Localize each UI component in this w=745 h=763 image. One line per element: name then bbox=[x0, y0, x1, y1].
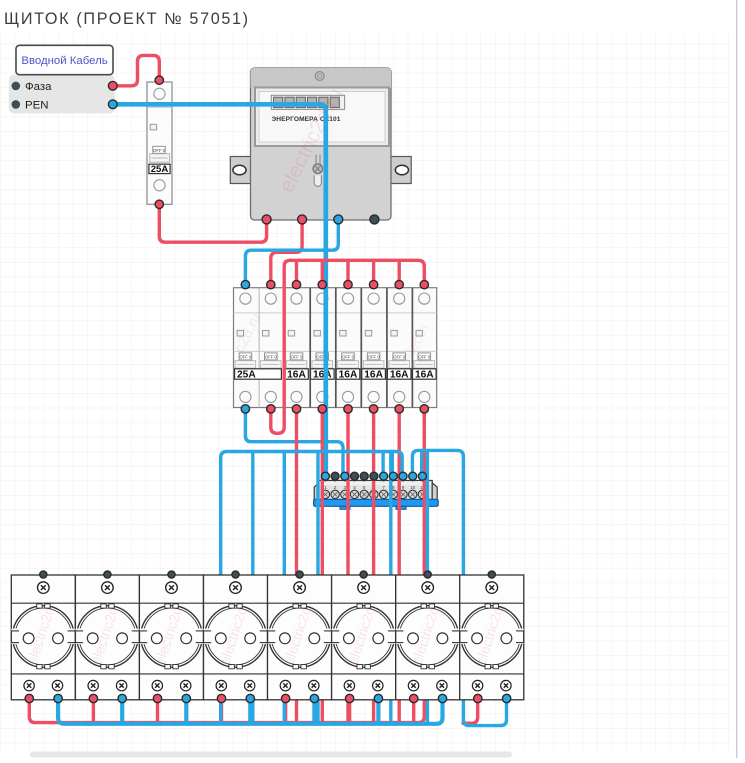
terminal breaker 5 bottom bbox=[344, 405, 352, 413]
socket 8 mount pin bbox=[488, 571, 495, 578]
svg-text:OFF 0: OFF 0 bbox=[239, 354, 252, 359]
svg-text:OFF 0: OFF 0 bbox=[393, 354, 406, 359]
socket 7 mount pin bbox=[424, 571, 431, 578]
socket XS1 bbox=[11, 575, 75, 700]
legend panel bbox=[9, 75, 115, 114]
svg-text:16A: 16A bbox=[339, 370, 358, 381]
wire meter L-out to breaker 2 bbox=[271, 219, 302, 284]
terminal breaker 1 top bbox=[241, 280, 249, 288]
wire PEN feed to bus bbox=[113, 104, 326, 476]
meter U1 ЭНЕРГОМЕРА СЕ101 bbox=[230, 68, 411, 220]
wire QF1 to meter L-in bbox=[159, 204, 266, 242]
terminal QF1 bottom bbox=[155, 200, 163, 208]
svg-text:16A: 16A bbox=[313, 370, 332, 381]
svg-text:5: 5 bbox=[363, 485, 366, 490]
svg-text:25A: 25A bbox=[151, 164, 169, 175]
socket 6 mount pin bbox=[360, 571, 367, 578]
wire breaker 8 output riser bbox=[418, 409, 424, 723]
breaker module 5 details bbox=[336, 293, 360, 403]
terminal socket 2 N bbox=[118, 694, 126, 702]
title bbox=[4, 10, 250, 28]
terminal socket 1 N bbox=[54, 694, 62, 702]
wire breaker 1 N to bus pin 3 bbox=[245, 409, 343, 476]
wire phase comb to breakers 3-8 bbox=[271, 260, 425, 433]
terminal breaker 2 top bbox=[267, 280, 275, 288]
wire neutral distribution under sockets bbox=[58, 699, 442, 724]
svg-text:OFF 0: OFF 0 bbox=[291, 354, 304, 359]
terminal socket 5 L bbox=[281, 694, 289, 702]
bus pin 2 bbox=[331, 472, 339, 480]
terminal breaker 7 top bbox=[395, 280, 403, 288]
socket XS6 bbox=[332, 575, 396, 700]
wire bus pin 10 to socket 8 N bbox=[412, 450, 506, 725]
legend label Фаза bbox=[12, 81, 53, 93]
terminal breaker 8 bottom bbox=[420, 405, 428, 413]
breaker module 4 details bbox=[311, 293, 335, 403]
terminal socket 6 L bbox=[345, 694, 353, 702]
terminal socket 3 N bbox=[182, 694, 190, 702]
wire breaker 6 output riser bbox=[372, 409, 375, 723]
terminal breaker 3 bottom bbox=[292, 405, 300, 413]
socket 3 mount pin bbox=[168, 571, 175, 578]
wire breaker 5 output riser bbox=[346, 409, 349, 723]
svg-text:16A: 16A bbox=[364, 370, 383, 381]
svg-text:25A: 25A bbox=[237, 370, 256, 381]
breaker module 7 details bbox=[387, 293, 411, 403]
svg-text:2: 2 bbox=[334, 485, 337, 490]
socket XS8 bbox=[460, 575, 524, 700]
terminal socket 2 L bbox=[89, 694, 97, 702]
bus pin 8 bbox=[389, 472, 397, 480]
terminal QF1 top bbox=[155, 76, 163, 84]
terminal breaker 4 bottom bbox=[318, 405, 326, 413]
svg-text:9: 9 bbox=[402, 485, 405, 490]
terminal breaker 6 top bbox=[369, 280, 377, 288]
wire phase input bbox=[113, 55, 160, 85]
bus pin 3 bbox=[341, 472, 349, 480]
terminal breaker 7 bottom bbox=[395, 405, 403, 413]
socket XS5 bbox=[268, 575, 332, 700]
breaker module 3 details bbox=[285, 293, 309, 403]
bus pin 7 bbox=[380, 472, 388, 480]
wire breaker 4 output riser bbox=[321, 409, 324, 723]
page right border bbox=[736, 0, 738, 758]
breaker module 1 details bbox=[235, 293, 256, 403]
bus pin 9 bbox=[399, 472, 407, 480]
bottom scrollbar bbox=[30, 752, 512, 758]
terminal breaker 8 top bbox=[420, 280, 428, 288]
terminal breaker 2 bottom bbox=[267, 405, 275, 413]
legend label PEN bbox=[12, 100, 49, 112]
svg-text:OFF 0: OFF 0 bbox=[418, 354, 431, 359]
breaker module 6 details bbox=[362, 293, 386, 403]
svg-text:7: 7 bbox=[382, 485, 385, 490]
breaker module 8 details bbox=[413, 293, 437, 403]
wire meter N-out to breaker 1 bbox=[245, 219, 338, 284]
svg-text:16A: 16A bbox=[415, 370, 434, 381]
terminal meter 2 bbox=[298, 215, 307, 224]
breaker 25A 2-pole label bbox=[235, 369, 282, 381]
terminal socket 8 L bbox=[474, 694, 482, 702]
breaker row body bbox=[231, 288, 437, 408]
svg-text:16A: 16A bbox=[390, 370, 409, 381]
svg-text:PEN: PEN bbox=[25, 100, 48, 112]
socket XS7 bbox=[396, 575, 460, 700]
legend box Вводной Кабель bbox=[16, 45, 113, 74]
terminal breaker 1 bottom bbox=[241, 405, 249, 413]
bus pin 1 bbox=[321, 472, 329, 480]
terminal breaker 6 bottom bbox=[369, 405, 377, 413]
terminal socket 7 N bbox=[438, 694, 446, 702]
breaker QF1 25A (input) bbox=[147, 82, 172, 204]
svg-text:10: 10 bbox=[410, 485, 416, 490]
terminal socket 8 N bbox=[502, 694, 510, 702]
bus pin 4 bbox=[351, 472, 359, 480]
socket XS4 bbox=[204, 575, 268, 700]
terminal socket 4 N bbox=[246, 694, 254, 702]
svg-text:3: 3 bbox=[343, 485, 346, 490]
terminal socket 1 L bbox=[25, 694, 33, 702]
svg-text:OFF 0: OFF 0 bbox=[342, 354, 355, 359]
terminal socket 6 N bbox=[374, 694, 382, 702]
node PEN source bbox=[108, 100, 117, 109]
terminal breaker 5 top bbox=[344, 280, 352, 288]
svg-text:OFF 0: OFF 0 bbox=[265, 354, 278, 359]
terminal breaker 3 top bbox=[292, 280, 300, 288]
terminal meter 1 bbox=[262, 215, 271, 224]
svg-text:OFF 0: OFF 0 bbox=[153, 148, 166, 153]
socket XS3 bbox=[139, 575, 203, 700]
bus pin 5 bbox=[360, 472, 368, 480]
terminal socket 3 L bbox=[153, 694, 161, 702]
bus pin 10 bbox=[409, 472, 417, 480]
wire socket 8 phase bbox=[462, 699, 478, 724]
svg-text:4: 4 bbox=[353, 485, 356, 490]
socket 4 mount pin bbox=[232, 571, 239, 578]
svg-text:Вводной Кабель: Вводной Кабель bbox=[21, 55, 107, 67]
wire phase distribution under sockets bbox=[29, 699, 419, 723]
PEN bus bar body bbox=[314, 475, 439, 509]
wire breaker 7 output riser bbox=[398, 409, 401, 723]
socket 2 mount pin bbox=[104, 571, 111, 578]
terminal meter 3 bbox=[334, 215, 343, 224]
socket 1 mount pin bbox=[40, 571, 47, 578]
wire neutral comb bus to sockets bbox=[221, 452, 403, 724]
node phase source bbox=[108, 81, 117, 90]
terminal breaker 4 top bbox=[318, 280, 326, 288]
bus pin 11 bbox=[418, 472, 426, 480]
svg-text:16A: 16A bbox=[287, 370, 306, 381]
svg-text:Фаза: Фаза bbox=[25, 81, 52, 93]
terminal meter 4 bbox=[370, 215, 379, 224]
terminal socket 7 L bbox=[410, 694, 418, 702]
wire breaker 3 output riser bbox=[295, 409, 298, 723]
socket 5 mount pin bbox=[296, 571, 303, 578]
terminal socket 5 N bbox=[310, 694, 318, 702]
svg-text:1: 1 bbox=[324, 485, 327, 490]
svg-text:ЩИТОК (ПРОЕКТ № 57051): ЩИТОК (ПРОЕКТ № 57051) bbox=[4, 10, 250, 28]
svg-text:OFF 0: OFF 0 bbox=[368, 354, 381, 359]
breaker module 2 details bbox=[261, 293, 282, 403]
terminal socket 4 L bbox=[217, 694, 225, 702]
bus pin 6 bbox=[370, 472, 378, 480]
socket XS2 bbox=[75, 575, 139, 700]
